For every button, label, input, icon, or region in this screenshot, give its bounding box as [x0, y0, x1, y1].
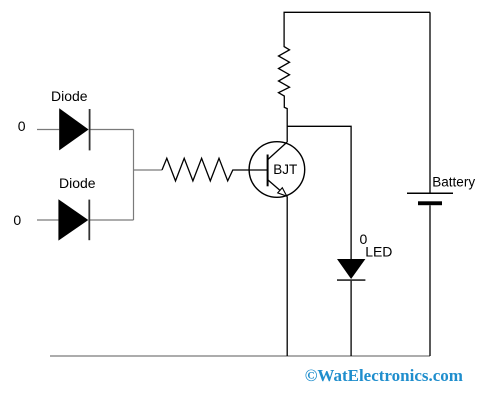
svg-text:Diode: Diode [51, 88, 88, 104]
svg-text:LED: LED [365, 243, 392, 259]
svg-text:BJT: BJT [273, 162, 297, 177]
svg-text:©WatElectronics.com: ©WatElectronics.com [305, 366, 463, 385]
svg-text:0: 0 [18, 118, 26, 134]
svg-text:Battery: Battery [432, 174, 475, 189]
svg-text:0: 0 [13, 212, 21, 228]
svg-text:Diode: Diode [59, 175, 96, 191]
